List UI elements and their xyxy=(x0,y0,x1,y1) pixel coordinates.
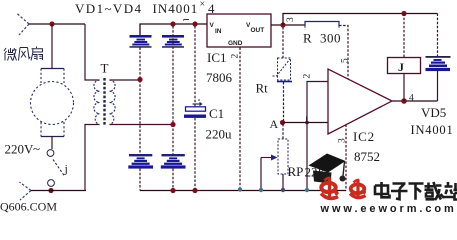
potentiometer RP box xyxy=(278,139,288,174)
svg-text:RP: RP xyxy=(288,164,304,179)
AC plug prong top xyxy=(17,14,29,36)
transformer secondary top lead xyxy=(110,79,141,81)
node: leg2 bottom xyxy=(170,188,175,193)
扇 xyxy=(31,47,43,61)
node: secondary top to leg1 xyxy=(137,77,142,82)
svg-text:R: R xyxy=(303,31,312,46)
capacitor C1 plus mark xyxy=(198,99,200,101)
wire: VCC top right rail xyxy=(283,14,438,26)
transformer T core xyxy=(103,78,105,126)
svg-text:8752: 8752 xyxy=(354,149,380,164)
transformer T primary bottom lead xyxy=(85,125,100,191)
node: secondary bottom to leg2 xyxy=(170,122,175,127)
switch j blade xyxy=(53,160,65,177)
diode VD3 (bottom left of bridge) xyxy=(128,154,153,169)
switch j terminal lower xyxy=(48,180,55,187)
node: GND to rail xyxy=(238,187,242,191)
node: wiper to rail xyxy=(259,188,263,192)
wire: op-amp output xyxy=(392,100,438,102)
wire: bridge leg2 vertical xyxy=(172,26,174,155)
svg-text:220V: 220V xyxy=(5,142,35,157)
switch j terminal upper xyxy=(47,150,54,157)
potentiometer RP top lead xyxy=(282,124,284,139)
svg-text:2: 2 xyxy=(303,74,313,79)
transformer secondary bottom lead xyxy=(110,124,174,126)
svg-text:Rt: Rt xyxy=(256,81,269,96)
node: switch to rail xyxy=(48,188,53,193)
motor M (fan) circle xyxy=(31,82,74,125)
svg-text:3: 3 xyxy=(338,138,348,143)
node: C1 top xyxy=(192,21,197,26)
wire: Rt top lead xyxy=(282,27,284,58)
watermark 虫 1 xyxy=(321,178,339,199)
regulator IC1 box xyxy=(207,14,271,47)
wire: bridge leg1 vertical xyxy=(139,48,141,156)
watermark 电子下载站 xyxy=(375,182,457,200)
thermistor Rt bottom bar xyxy=(277,81,292,83)
svg-text:IN: IN xyxy=(215,28,222,35)
电 xyxy=(375,182,390,197)
wire: VD5 bottom lead xyxy=(437,71,439,101)
wire: IC1 GND lead xyxy=(239,48,241,190)
微 xyxy=(4,48,17,61)
wire: op-amp pin3 lead xyxy=(345,125,347,191)
node A xyxy=(280,120,285,125)
svg-text:3: 3 xyxy=(286,17,296,22)
diode VD4 (bottom right of bridge) xyxy=(161,154,186,169)
svg-text:4: 4 xyxy=(409,94,414,104)
node: A wire junction xyxy=(305,121,309,125)
node: RP to rail xyxy=(281,188,285,192)
motor bottom terminal box xyxy=(41,136,64,138)
wire: relay J bottom lead xyxy=(403,74,405,102)
wire: bottom AC rail xyxy=(31,190,86,192)
thermistor Rt diagonal xyxy=(273,59,291,76)
svg-text:VD1~VD4: VD1~VD4 xyxy=(75,1,142,16)
wire: top AC segment xyxy=(29,23,85,25)
svg-text:j: j xyxy=(64,162,68,176)
potentiometer RP wiper arrow xyxy=(261,157,272,159)
node: leg2 top xyxy=(170,21,175,26)
svg-text:IN4001: IN4001 xyxy=(153,1,199,16)
capacitor C1 bottom plate xyxy=(184,115,206,118)
wire: relay J top lead xyxy=(403,14,405,58)
svg-text:Q606.COM: Q606.COM xyxy=(0,200,57,214)
svg-text:×: × xyxy=(200,0,206,10)
label 微风扇 (fan) hand-drawn xyxy=(4,47,43,61)
AC plug prong bottom xyxy=(20,182,32,200)
wire: IC1 out xyxy=(271,24,305,26)
thermistor Rt box xyxy=(278,58,291,80)
wire: Rt bottom lead xyxy=(283,82,285,123)
wire: RP bottom lead xyxy=(282,174,284,190)
svg-text:~: ~ xyxy=(33,141,40,156)
wire: DC+ top rail xyxy=(140,24,207,35)
capacitor C1 top plate xyxy=(186,107,206,111)
wire: leg2 to rail xyxy=(172,169,174,191)
风 xyxy=(19,48,31,61)
svg-text:V: V xyxy=(210,22,215,29)
wire: DC- bottom rail xyxy=(140,190,346,192)
svg-text:7806: 7806 xyxy=(206,70,233,85)
svg-text:5: 5 xyxy=(341,58,351,63)
wire: op-amp pin2 lead xyxy=(307,82,328,191)
diode VD2 (top right of bridge) xyxy=(162,35,184,48)
svg-text:300: 300 xyxy=(320,31,341,46)
svg-text:C1: C1 xyxy=(209,106,224,121)
wire: motor top lead xyxy=(51,24,53,69)
node: relay J top xyxy=(401,11,406,16)
watermark graduation cap xyxy=(309,154,346,184)
svg-text:IN4001: IN4001 xyxy=(411,123,454,137)
diode VD1 (top left of bridge) xyxy=(130,35,152,48)
node: output junction pin4 xyxy=(401,98,407,104)
IC1 inner labels xyxy=(210,22,265,47)
载 xyxy=(425,182,445,200)
relay J box xyxy=(388,58,421,74)
pin 1 label IC1 xyxy=(183,20,189,21)
svg-text:IC1: IC1 xyxy=(207,50,227,65)
svg-text:www.eeworm.com: www.eeworm.com xyxy=(320,203,457,214)
transformer T primary top lead xyxy=(85,24,100,80)
motor top terminal box xyxy=(41,68,64,70)
svg-text:OUT: OUT xyxy=(251,27,265,34)
下 xyxy=(409,184,424,200)
node: regulator output xyxy=(280,22,285,27)
watermark 虫 2 xyxy=(350,180,366,198)
node: motor junction xyxy=(49,21,54,26)
站 xyxy=(444,182,457,200)
transformer T windings xyxy=(94,80,115,125)
svg-text:T: T xyxy=(101,61,109,76)
wire: VD5 top lead xyxy=(437,14,439,58)
op-amp IC2 triangle xyxy=(328,69,392,134)
wire: A to op-amp input xyxy=(283,122,329,124)
resistor R box xyxy=(305,21,339,30)
wire: C1 top lead xyxy=(194,26,196,107)
wire: R to op-amp pin5 xyxy=(339,26,348,79)
svg-text:IC2: IC2 xyxy=(353,129,375,144)
svg-text:220u: 220u xyxy=(206,127,233,142)
wire: C1 bottom lead xyxy=(194,118,196,191)
wire: motor bottom lead xyxy=(51,137,53,150)
svg-text:VD5: VD5 xyxy=(421,105,446,120)
svg-text:A: A xyxy=(270,117,279,131)
svg-text:GND: GND xyxy=(228,40,243,47)
wire: leg1 to rail xyxy=(139,169,141,191)
node: C1 bottom xyxy=(192,188,197,193)
diode VD5 xyxy=(426,56,451,71)
node: pin2 to rail xyxy=(305,188,309,192)
svg-text:2: 2 xyxy=(231,54,241,59)
子 xyxy=(391,184,408,200)
pin 1 tick IC2 xyxy=(306,117,308,122)
wire: wiper to rail xyxy=(260,158,262,191)
svg-text:J: J xyxy=(398,60,404,74)
